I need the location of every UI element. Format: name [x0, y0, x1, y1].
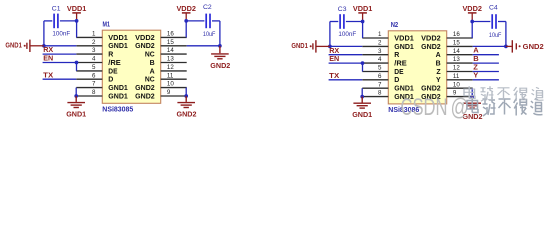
svg-text:6: 6: [378, 73, 382, 80]
svg-text:/RE: /RE: [394, 61, 407, 68]
svg-text:11: 11: [167, 72, 174, 79]
svg-text:100nF: 100nF: [338, 31, 356, 38]
svg-text:7: 7: [378, 81, 382, 88]
svg-text:10: 10: [167, 81, 174, 88]
svg-text:4: 4: [92, 56, 96, 63]
svg-text:GND2: GND2: [421, 86, 441, 93]
svg-text:VDD2: VDD2: [462, 4, 482, 13]
svg-text:12: 12: [167, 64, 174, 71]
svg-text:14: 14: [167, 47, 174, 54]
svg-text:C3: C3: [338, 6, 347, 13]
svg-text:10: 10: [453, 81, 460, 88]
svg-text:VDD1: VDD1: [108, 35, 128, 42]
svg-text:10uF: 10uF: [203, 31, 216, 38]
svg-text:EN: EN: [43, 54, 53, 63]
svg-text:16: 16: [453, 31, 460, 38]
svg-text:@: @: [451, 94, 470, 121]
svg-text:8: 8: [92, 89, 96, 96]
svg-text:NSi83085: NSi83085: [102, 106, 133, 113]
svg-text:3: 3: [92, 47, 96, 54]
svg-text:GND2: GND2: [421, 44, 441, 51]
svg-text:B: B: [150, 60, 155, 67]
svg-text:9: 9: [167, 89, 171, 96]
svg-text:GND2: GND2: [135, 85, 155, 92]
svg-text:C2: C2: [203, 4, 212, 11]
svg-text:8: 8: [378, 90, 382, 97]
svg-text:DE: DE: [394, 69, 404, 76]
svg-text:GND1: GND1: [5, 40, 22, 49]
svg-text:N2: N2: [391, 20, 399, 29]
svg-text:Z: Z: [436, 69, 441, 76]
svg-text:16: 16: [167, 31, 174, 38]
svg-text:7: 7: [92, 81, 96, 88]
svg-text:GND2: GND2: [135, 43, 155, 50]
svg-text:13: 13: [453, 56, 460, 63]
svg-text:Y: Y: [473, 71, 478, 80]
svg-text:GND1: GND1: [108, 43, 128, 50]
svg-text:2: 2: [92, 39, 96, 46]
svg-text:GND1: GND1: [394, 44, 414, 51]
svg-text:1: 1: [92, 31, 96, 38]
svg-text:GND2: GND2: [177, 109, 197, 118]
svg-text:GND1: GND1: [66, 109, 86, 118]
svg-text:2: 2: [378, 40, 382, 47]
svg-text:VDD2: VDD2: [176, 4, 196, 13]
svg-text:GND1: GND1: [352, 110, 372, 119]
svg-text:C1: C1: [52, 5, 61, 12]
svg-text:13: 13: [167, 56, 174, 63]
svg-text:12: 12: [453, 65, 460, 72]
svg-text:GND2: GND2: [210, 61, 230, 70]
svg-text:GND1: GND1: [394, 86, 414, 93]
svg-text:3: 3: [378, 48, 382, 55]
svg-text:GND2: GND2: [523, 42, 544, 51]
svg-text:VDD1: VDD1: [67, 4, 87, 13]
svg-text:4: 4: [378, 56, 382, 63]
svg-text:EN: EN: [329, 54, 339, 63]
svg-text:VDD1: VDD1: [394, 35, 414, 42]
svg-text:GND2: GND2: [135, 93, 155, 100]
svg-text:NC: NC: [145, 52, 155, 59]
svg-text:R: R: [394, 52, 399, 59]
svg-text:M1: M1: [103, 19, 111, 28]
svg-text:D: D: [108, 77, 113, 84]
svg-text:A: A: [436, 52, 441, 59]
svg-text:B: B: [436, 61, 441, 68]
svg-text:5: 5: [92, 64, 96, 71]
svg-text:TX: TX: [43, 70, 53, 79]
svg-text:/RE: /RE: [108, 60, 121, 67]
svg-text:VDD1: VDD1: [353, 4, 373, 13]
svg-text:100nF: 100nF: [52, 30, 70, 37]
svg-text:5: 5: [378, 65, 382, 72]
svg-text:NC: NC: [145, 77, 155, 84]
svg-text:GND1: GND1: [291, 41, 308, 50]
svg-text:C4: C4: [489, 4, 498, 11]
svg-text:10uF: 10uF: [489, 32, 502, 39]
svg-text:VDD2: VDD2: [135, 35, 155, 42]
svg-text:Y: Y: [436, 77, 441, 84]
svg-text:VDD2: VDD2: [421, 35, 441, 42]
svg-text:TX: TX: [329, 71, 339, 80]
svg-text:D: D: [394, 77, 399, 84]
svg-text:GND1: GND1: [108, 85, 128, 92]
svg-text:CSDN: CSDN: [401, 94, 448, 121]
svg-text:15: 15: [453, 40, 460, 47]
svg-text:14: 14: [453, 48, 460, 55]
svg-text:GND1: GND1: [108, 93, 128, 100]
svg-text:R: R: [108, 52, 113, 59]
svg-text:A: A: [150, 68, 155, 75]
svg-text:15: 15: [167, 39, 174, 46]
svg-text:6: 6: [92, 72, 96, 79]
svg-text:11: 11: [453, 73, 460, 80]
svg-text:1: 1: [378, 31, 382, 38]
svg-text:DE: DE: [108, 68, 118, 75]
